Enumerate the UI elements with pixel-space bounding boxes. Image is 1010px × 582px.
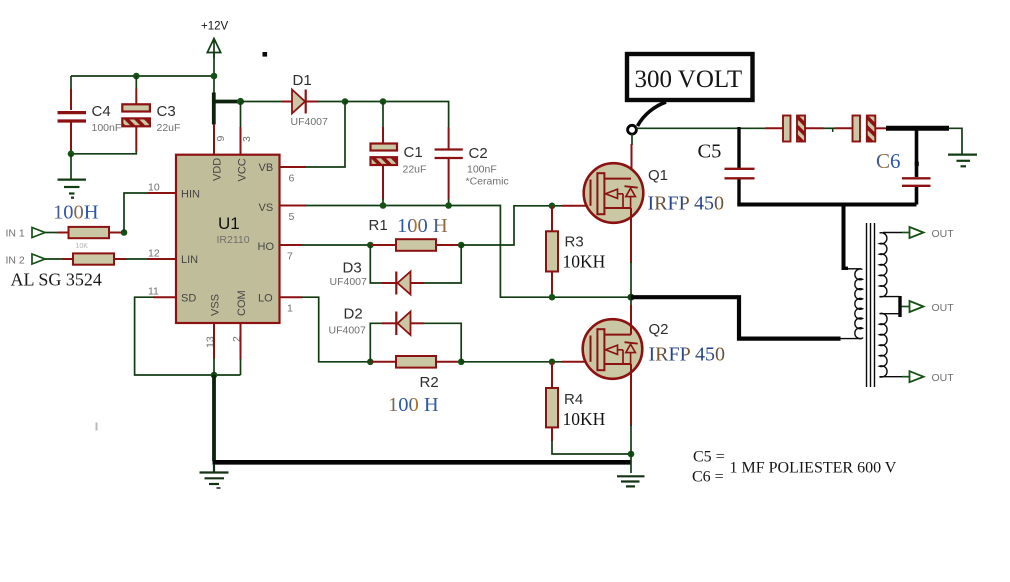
wire (thick) Q1 source to transformer: [631, 297, 841, 338]
svg-text:VS: VS: [259, 202, 274, 214]
svg-text:IRFP 450: IRFP 450: [649, 344, 726, 366]
wire D3 left leg: [370, 245, 382, 283]
wire C1 top lead: [382, 102, 384, 128]
wire SD loop to VSS/COM: [135, 297, 241, 375]
svg-text:C5: C5: [698, 141, 722, 163]
wire VDD pin stub: [213, 124, 215, 155]
core: [866, 223, 868, 387]
junction: [68, 151, 75, 158]
capacitor C3 (electrolytic): [122, 104, 150, 126]
svg-text:5: 5: [289, 211, 295, 223]
wire C3 bottom lead: [135, 127, 137, 152]
input terminal IN1: [6, 228, 46, 240]
center tap bar: [898, 296, 901, 317]
capacitor C2: [435, 150, 463, 159]
wire HIN riser: [124, 193, 148, 233]
resistor R1: [370, 239, 461, 251]
wire primary bottom lead: [840, 338, 862, 340]
wire VCC pin lead: [240, 102, 242, 128]
output terminal OUT middle: [902, 301, 955, 314]
resistor R3: [546, 206, 558, 297]
ground (top-left): [58, 180, 87, 194]
wire C4 bottom lead: [70, 123, 72, 151]
wire COM pin lead: [240, 323, 242, 360]
svg-text:1: 1: [287, 303, 293, 315]
wire top rail to C2 elbow: [345, 102, 449, 129]
wire (thick) VDD tie bar: [212, 93, 216, 125]
wire D1 cathode lead: [306, 101, 319, 103]
svg-text:+12V: +12V: [201, 21, 229, 33]
resistor (input, bottom): [73, 253, 114, 264]
node 300V ring: [628, 125, 637, 134]
svg-text:D3: D3: [343, 260, 362, 277]
wire IN1 to R input: [45, 232, 58, 234]
diode D1: [292, 90, 306, 114]
ground (under Q2): [617, 476, 645, 486]
svg-text:D1: D1: [293, 72, 312, 89]
svg-text:OUT: OUT: [932, 302, 955, 314]
primary winding: [855, 269, 863, 339]
wire Q1 source lead: [630, 208, 632, 263]
svg-text:LO: LO: [258, 293, 273, 305]
wire VS rail: [280, 205, 307, 207]
wire D2 left leg: [370, 323, 382, 362]
wire C3 top lead: [135, 76, 137, 89]
secondary winding bottom: [880, 313, 903, 377]
svg-text:UF4007: UF4007: [291, 116, 329, 128]
capacitor C1 (electrolytic): [371, 144, 398, 166]
wire to right ground: [949, 128, 963, 154]
svg-text:10KH: 10KH: [563, 252, 606, 272]
wire (thick) C6 bottom: [915, 187, 919, 205]
svg-text:11: 11: [148, 286, 159, 298]
svg-text:COM: COM: [236, 290, 248, 316]
junction: [628, 451, 635, 458]
wire LO down-over: [302, 297, 370, 362]
svg-text:C5 =: C5 =: [693, 449, 725, 466]
junction: [458, 242, 465, 249]
label box 300 VOLT: [627, 54, 753, 100]
svg-text:C2: C2: [469, 145, 488, 162]
junction: [211, 73, 218, 80]
resistor R4: [546, 362, 558, 441]
resistor (100H input, top): [69, 227, 110, 238]
junction: [628, 294, 635, 301]
wire Q2 gate lead: [562, 361, 591, 363]
secondary winding top: [880, 233, 903, 297]
ground (top-right): [948, 155, 977, 167]
svg-text:R3: R3: [565, 234, 584, 251]
svg-text:U1: U1: [218, 214, 240, 233]
wire Q1 gate lead: [562, 205, 591, 207]
transistor Q1: [584, 163, 644, 223]
wire C1 bottom lead: [382, 166, 384, 200]
junction: [458, 359, 465, 366]
svg-text:HO: HO: [258, 241, 275, 253]
svg-text:100H: 100H: [53, 202, 99, 224]
wire (thick) C6 stem: [915, 126, 919, 177]
svg-text:300 VOLT: 300 VOLT: [635, 66, 743, 93]
wire R to LIN: [114, 258, 127, 260]
svg-text:*Ceramic: *Ceramic: [466, 176, 509, 188]
svg-text:IR2110: IR2110: [217, 234, 250, 246]
svg-text:C6: C6: [876, 149, 901, 173]
wire HIN pin stub: [148, 192, 177, 194]
wire LIN pin stub: [148, 258, 177, 260]
wire (thick) tie branch: [213, 100, 241, 104]
svg-text:C1: C1: [404, 144, 423, 161]
wire SD pin stub: [154, 296, 177, 298]
svg-text:UF4007: UF4007: [329, 325, 367, 337]
svg-text:R2: R2: [420, 374, 439, 391]
junction: [133, 73, 140, 80]
capacitor pair 2 (polyester): [853, 116, 876, 142]
svg-text:Q1: Q1: [648, 167, 668, 184]
junction: [445, 202, 452, 209]
svg-text:R1: R1: [369, 217, 388, 234]
IC U1 IR2110 body: [176, 155, 280, 323]
svg-text:OUT: OUT: [932, 228, 955, 240]
svg-text:IN 2: IN 2: [6, 255, 25, 267]
wire top-left rail: [71, 75, 214, 77]
wire node to D1: [241, 101, 283, 103]
wire to ground: [70, 154, 72, 179]
capacitor C6: [902, 178, 931, 186]
svg-text:100nF: 100nF: [92, 122, 122, 134]
wire HO to gate riser: [461, 206, 562, 245]
leader line: [638, 102, 667, 126]
resistor R2: [370, 356, 461, 368]
junction VCC node: [237, 98, 244, 105]
wire D3 right leg: [411, 282, 424, 284]
capacitor C5: [725, 169, 755, 179]
wire D2 right leg: [411, 322, 424, 324]
svg-text:9: 9: [215, 136, 227, 142]
wire (thick) primary top riser: [842, 205, 846, 268]
junction: [121, 229, 128, 236]
svg-text:HIN: HIN: [181, 189, 200, 201]
svg-text:C3: C3: [157, 103, 176, 120]
wire C2 top lead: [448, 127, 450, 148]
svg-text:22uF: 22uF: [157, 122, 181, 134]
capacitor C4: [58, 113, 87, 121]
svg-text:100 H: 100 H: [388, 394, 439, 416]
svg-text:Q2: Q2: [649, 321, 669, 338]
svg-text:IN 1: IN 1: [6, 228, 25, 240]
input terminal IN2: [6, 254, 46, 267]
wire (thick) C5 riser: [737, 127, 740, 169]
output terminal OUT top: [902, 227, 954, 240]
wire (thick) C5-C6 bottom rail: [737, 203, 916, 207]
black artifact dot: [263, 52, 268, 57]
svg-text:3: 3: [241, 136, 253, 142]
wire Q2 source to ground: [630, 364, 632, 426]
wire (thick) C5 bottom: [737, 180, 740, 205]
ground (bottom-left): [200, 464, 229, 484]
diode D3: [396, 272, 410, 295]
svg-text:C6 =: C6 =: [692, 469, 724, 486]
output terminal OUT bottom: [902, 371, 954, 384]
svg-text:22uF: 22uF: [403, 164, 427, 176]
wire C4 top lead: [70, 76, 72, 90]
svg-text:6: 6: [289, 173, 295, 185]
svg-text:100 H: 100 H: [397, 215, 448, 237]
svg-text:IRFP 450: IRFP 450: [648, 193, 725, 215]
wire R4 to source node: [552, 441, 631, 455]
svg-text:1 MF POLIESTER 600 V: 1 MF POLIESTER 600 V: [730, 460, 897, 477]
wire HO pin stub: [280, 244, 303, 246]
svg-text:100nF: 100nF: [467, 164, 497, 176]
svg-text:D2: D2: [344, 306, 363, 323]
svg-text:R4: R4: [564, 391, 583, 408]
wire VB riser: [306, 102, 346, 168]
wire LO to Q2 gate: [461, 361, 562, 363]
wire Q2 drain lead: [630, 297, 632, 306]
svg-text:SD: SD: [181, 293, 196, 305]
junction: [549, 359, 556, 366]
wire +12V stem: [213, 52, 215, 93]
wire pair2 out: [876, 127, 888, 129]
power flag +12V: [201, 21, 229, 59]
wire IN2 to R input: [45, 258, 63, 260]
svg-text:VSS: VSS: [210, 294, 222, 316]
wire to poly cap pair 1: [765, 127, 783, 129]
svg-text:AL SG 3524: AL SG 3524: [11, 270, 102, 290]
wire (thick) ground rail: [213, 460, 632, 465]
wire VSS pin lead: [213, 323, 215, 359]
svg-text:10K: 10K: [76, 243, 89, 250]
junction: [549, 294, 556, 301]
junction: [367, 359, 374, 366]
wire C2 bottom lead: [448, 159, 450, 200]
svg-text:C4: C4: [92, 103, 111, 120]
junction: [367, 242, 374, 249]
svg-text:12: 12: [148, 248, 160, 260]
junction: [342, 98, 349, 105]
wire VB pin stub: [280, 166, 307, 168]
wire LO pin stub: [280, 296, 303, 298]
wire primary top lead: [847, 268, 861, 270]
wire between pairs: [805, 127, 823, 129]
svg-text:VB: VB: [259, 162, 274, 174]
svg-text:10: 10: [148, 182, 160, 194]
transformer TR1: [855, 223, 902, 387]
diode D2: [396, 312, 410, 336]
capacitor pair 1 (polyester): [783, 116, 805, 142]
wire Q1 drain top: [631, 134, 633, 145]
transistor Q2: [583, 319, 643, 379]
svg-text:10KH: 10KH: [563, 409, 606, 429]
wire (thick) VSS to ground rail: [212, 375, 216, 461]
svg-text:VCC: VCC: [237, 158, 249, 181]
svg-text:OUT: OUT: [932, 372, 955, 384]
junction: [380, 202, 387, 209]
wire (thick) top-right bus: [886, 126, 949, 131]
grey artifact dash: [96, 423, 98, 431]
svg-text:VDD: VDD: [212, 158, 224, 181]
wire R to HIN riser: [109, 232, 121, 234]
junction: [380, 98, 387, 105]
svg-text:7: 7: [287, 251, 293, 263]
junction: [211, 372, 218, 379]
wire node to C5 rail: [637, 127, 766, 129]
junction: [549, 203, 556, 210]
svg-text:LIN: LIN: [181, 254, 198, 266]
svg-text:UF4007: UF4007: [330, 276, 368, 288]
